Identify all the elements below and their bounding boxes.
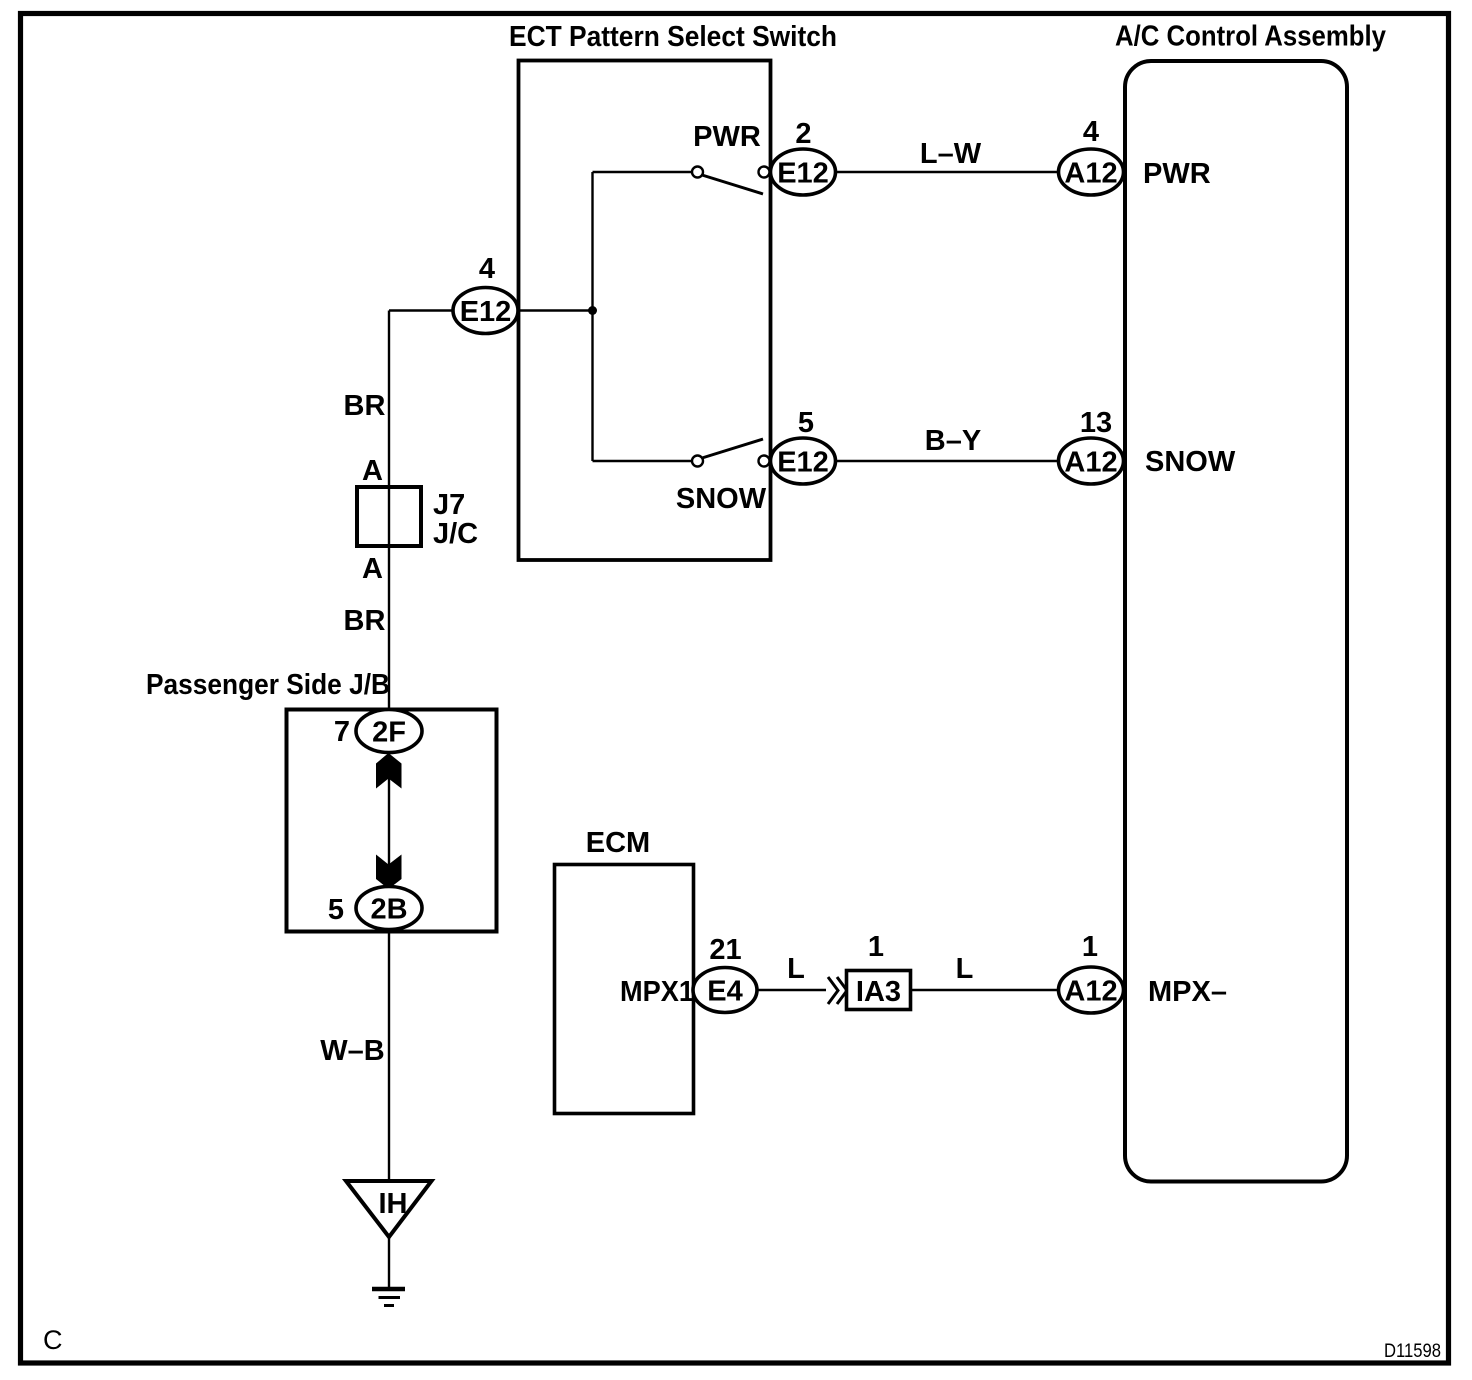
ground triangle IH — [346, 1181, 432, 1237]
wire: left branch to BR vertical — [389, 309, 453, 311]
svg-text:A12: A12 — [1064, 447, 1117, 479]
svg-text:IH: IH — [379, 1188, 408, 1220]
A/C Control Assembly box — [1125, 61, 1347, 1182]
ECT Pattern Select Switch box — [519, 61, 771, 561]
svg-text:J/C: J/C — [433, 518, 478, 550]
svg-text:A: A — [362, 553, 383, 585]
connector 2B — [356, 887, 422, 930]
ECM box — [555, 865, 694, 1114]
svg-text:MPX1: MPX1 — [620, 976, 694, 1008]
wire: E12 pin4 to bus — [453, 309, 593, 311]
connector E12 pin2 — [771, 149, 836, 195]
connector E12 pin4 — [453, 288, 518, 334]
svg-text:W–B: W–B — [320, 1035, 384, 1067]
connector A12 pin4 — [1059, 149, 1124, 195]
wire: BR vertical down to J/B — [388, 311, 390, 710]
svg-text:L: L — [787, 953, 805, 985]
svg-text:E12: E12 — [777, 158, 829, 190]
wire: SNOW contact feed — [593, 460, 693, 462]
junction dot — [588, 306, 597, 315]
svg-text:PWR: PWR — [693, 121, 761, 153]
svg-text:1: 1 — [1082, 931, 1098, 963]
svg-text:ECM: ECM — [586, 827, 650, 859]
svg-text:E12: E12 — [777, 447, 829, 479]
wire: internal vertical bus in switch — [591, 172, 593, 461]
Passenger Side J/B box — [287, 710, 497, 932]
svg-text:2B: 2B — [370, 894, 407, 926]
svg-text:5: 5 — [328, 894, 344, 926]
svg-text:E12: E12 — [460, 296, 512, 328]
svg-text:ECT Pattern Select Switch: ECT Pattern Select Switch — [509, 21, 837, 53]
switch pivot circle SNOW — [692, 456, 703, 467]
ground symbol — [372, 1287, 405, 1292]
connector E4 pin21 — [693, 968, 757, 1013]
svg-text:2F: 2F — [372, 717, 406, 749]
wire: triangle to ground — [388, 1237, 390, 1288]
connector 2F — [356, 710, 422, 753]
svg-text:21: 21 — [709, 934, 741, 966]
svg-text:E4: E4 — [707, 976, 742, 1008]
connector IA3 — [847, 971, 911, 1010]
chevrons — [828, 977, 838, 1004]
svg-text:7: 7 — [334, 716, 350, 748]
svg-text:5: 5 — [798, 407, 814, 439]
svg-text:13: 13 — [1080, 407, 1112, 439]
up arrow — [376, 753, 402, 789]
wire: E12 pin5 to A12 pin13 — [835, 460, 1059, 462]
svg-text:A/C Control Assembly: A/C Control Assembly — [1115, 21, 1386, 53]
wire: 2B to ground — [388, 930, 390, 1182]
svg-text:MPX–: MPX– — [1148, 976, 1227, 1008]
switch contact circle PWR — [759, 167, 770, 178]
connector A12 pin13 — [1059, 438, 1124, 484]
junction connector J7 J/C — [357, 487, 421, 546]
svg-text:A12: A12 — [1064, 976, 1117, 1008]
svg-text:B–Y: B–Y — [925, 425, 981, 457]
svg-text:IA3: IA3 — [856, 976, 901, 1008]
svg-text:4: 4 — [1083, 116, 1099, 148]
svg-text:J7: J7 — [433, 489, 465, 521]
svg-text:SNOW: SNOW — [1145, 446, 1236, 478]
svg-text:BR: BR — [344, 390, 386, 422]
wire: IA3 to A12 — [912, 989, 1059, 991]
down arrow — [376, 855, 402, 890]
svg-text:4: 4 — [479, 253, 495, 285]
svg-text:PWR: PWR — [1143, 158, 1211, 190]
svg-text:C: C — [43, 1325, 63, 1355]
wire: E12 pin2 to A12 pin4 — [835, 171, 1059, 173]
svg-text:SNOW: SNOW — [676, 483, 767, 515]
svg-text:1: 1 — [868, 931, 884, 963]
svg-text:D11598: D11598 — [1384, 1341, 1441, 1362]
svg-text:L: L — [956, 953, 974, 985]
switch blade PWR — [702, 175, 763, 194]
connector E12 pin5 — [771, 438, 836, 484]
switch blade SNOW — [702, 439, 763, 458]
switch pivot circle PWR — [692, 167, 703, 178]
svg-text:2: 2 — [795, 118, 811, 150]
connector A12 pin1 — [1059, 967, 1124, 1013]
svg-text:L–W: L–W — [920, 138, 982, 170]
svg-text:BR: BR — [344, 605, 386, 637]
svg-text:A12: A12 — [1064, 158, 1117, 190]
svg-text:A: A — [362, 455, 383, 487]
wire: E4 to IA3 — [757, 989, 826, 991]
svg-text:Passenger Side J/B: Passenger Side J/B — [146, 669, 390, 701]
switch contact circle SNOW — [759, 456, 770, 467]
wire: PWR contact feed — [593, 171, 693, 173]
internal link line — [388, 709, 390, 886]
